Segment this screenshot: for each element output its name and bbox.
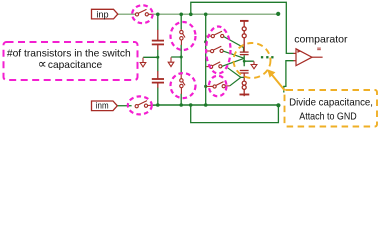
- annotation box divide capacitance: [285, 90, 378, 127]
- ground arrow A2: [168, 57, 174, 66]
- chain bottom plate: [240, 94, 250, 96]
- chain stem 2: [243, 31, 245, 34]
- chain stem 1: [243, 22, 245, 28]
- svg-text:Attach to GND: Attach to GND: [299, 111, 356, 122]
- capacitor chain column: [240, 21, 249, 55]
- chain cap plates pair 1: [240, 51, 249, 53]
- wire top net main: [153, 13, 279, 15]
- highlight ellipse around rows R1-R3: [206, 27, 230, 74]
- highlight ellipse divide node (yellow): [234, 43, 271, 78]
- port inp: [92, 9, 118, 20]
- switch B2: [180, 74, 185, 94]
- highlight ellipse around B1: [171, 22, 196, 50]
- chain ring node 3: [242, 81, 246, 85]
- capacitor column wire segments: [143, 14, 158, 105]
- junction middle column upper: [204, 40, 207, 43]
- capacitor C2: [152, 71, 164, 88]
- junction bottom wire at middle column: [204, 103, 208, 107]
- wire diagonal R2 to chain: [223, 51, 244, 58]
- callout arrow to divide node: [272, 75, 285, 91]
- junction top wire at cap column: [156, 13, 160, 17]
- chain ring node 1: [242, 27, 246, 31]
- svg-text:inp: inp: [96, 9, 108, 20]
- svg-text:inm: inm: [96, 100, 109, 111]
- endpoint dot top wire: [276, 12, 280, 16]
- junction middle column at switch row 4: [204, 85, 207, 88]
- chain stem 5: [243, 89, 245, 94]
- highlight circle around S2: [128, 96, 152, 114]
- wire diagonal R4 to chain: [230, 77, 244, 85]
- switch row R1: [206, 31, 223, 38]
- svg-text:∝: ∝: [38, 57, 47, 71]
- wire inm stub: [118, 105, 132, 107]
- chain stem 4: [243, 74, 245, 82]
- svg-text:capacitance: capacitance: [48, 60, 103, 71]
- junction top wire at rail riser: [189, 13, 193, 17]
- junction bottom wire at rail drop: [189, 103, 193, 107]
- ellipsis dots more capacitors: [261, 56, 274, 58]
- port inm: [92, 100, 118, 111]
- junction switch column gnd branch: [180, 56, 183, 59]
- junction bottom wire at cap column: [156, 103, 160, 107]
- wire diagonal R3 to chain: [222, 58, 244, 66]
- highlight ellipse around R4: [209, 76, 227, 97]
- wire diagonal R1 to chain: [224, 37, 244, 52]
- highlight ellipse around B2: [171, 73, 196, 98]
- chain stem 3: [243, 38, 245, 52]
- junction cap column gnd branch: [156, 56, 159, 59]
- annotation box switch transistors: [4, 42, 138, 80]
- junction bottom wire at switch column: [179, 103, 183, 107]
- chain ring node 2: [242, 34, 246, 38]
- junction top wire at switch column: [179, 13, 183, 17]
- wire top rail: [191, 2, 294, 53]
- junction top wire at middle column: [204, 13, 208, 17]
- wire diagonal R3 lower fork: [228, 68, 241, 78]
- svg-text:Divide capacitance,: Divide capacitance,: [289, 97, 373, 108]
- chain middle green node with tap: [244, 55, 254, 66]
- comparator U1: [293, 49, 322, 66]
- comparator input polarity glyph: [297, 50, 301, 53]
- highlight circle around S1: [132, 5, 153, 23]
- switch S2 after inm: [135, 101, 150, 108]
- svg-text:#of transistors in the switch: #of transistors in the switch: [7, 49, 131, 60]
- ground arrow A3: [251, 61, 257, 68]
- switch row R3: [206, 62, 222, 69]
- ground arrow A1: [140, 58, 146, 67]
- wire comparator lower feed: [284, 61, 294, 93]
- switch row R4: [206, 82, 229, 89]
- chain ring node 4: [242, 85, 246, 89]
- endpoint dot bottom wire: [276, 103, 280, 107]
- junction chain tap: [243, 60, 246, 63]
- wire bottom net main: [150, 104, 278, 106]
- svg-text:comparator: comparator: [294, 34, 348, 45]
- switch row R2: [206, 46, 223, 53]
- wire bottom rail: [191, 105, 279, 123]
- chain cap plates pair 2: [240, 70, 249, 72]
- capacitor C1: [152, 30, 164, 50]
- switch B1: [180, 29, 185, 45]
- wire top net inp: [118, 13, 136, 15]
- switch S1 after inp: [135, 9, 152, 16]
- switch column wire segments: [171, 14, 181, 105]
- chain top plate: [240, 20, 249, 22]
- middle column vertical wire: [205, 14, 207, 105]
- comparator clock label glyph: [317, 48, 321, 50]
